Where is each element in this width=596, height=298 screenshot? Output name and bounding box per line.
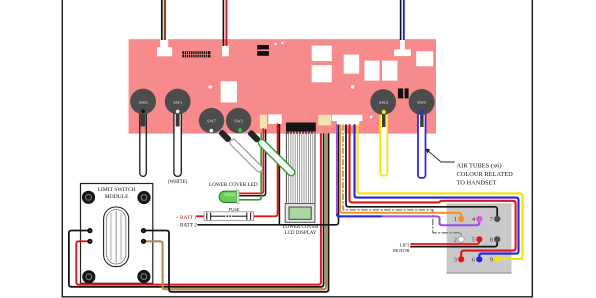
svg-text:AIR TUBES (x6): AIR TUBES (x6) [457,162,502,169]
wire black SK3 drop [278,124,280,225]
wire red LED leg [239,129,264,193]
wire brown module-right loop [144,134,327,289]
pin 4 [476,216,482,222]
limit switch module body [81,184,153,284]
ribbon cable [286,132,315,204]
wire black to J1 [161,0,163,40]
switch SW4 [370,89,396,115]
module screw top-right [137,191,150,204]
module screw bottom-left [82,270,95,283]
wire black lift motor [411,243,497,247]
svg-text:MOTOR: MOTOR [393,248,410,253]
svg-text:SW1: SW1 [173,100,182,105]
connector SK5 (motor white) [332,115,363,126]
svg-text:TO HANDSET: TO HANDSET [457,179,497,186]
pin labels [454,216,494,263]
svg-text:LIMIT SWITCH: LIMIT SWITCH [97,187,135,193]
wire purple to pin4 [337,125,479,225]
pin 2 [458,236,464,242]
air tube yellow (SW4) [380,108,387,176]
switch SW2 [226,108,251,133]
wire black LED leg [239,130,266,196]
wire red to pin3 [350,125,516,257]
wire red lift motor [411,241,479,244]
pin 6 [476,256,482,262]
pin 3 [458,256,464,262]
wire red module-left loop [76,134,321,285]
connector SK3 (white) [268,114,282,124]
fuse F1 [204,212,254,221]
svg-text:SW5: SW5 [417,100,427,105]
svg-text:LOWER COVER: LOWER COVER [283,225,320,230]
svg-text:LIFT: LIFT [400,242,410,247]
svg-text:9: 9 [490,257,493,264]
module screw top-left [82,191,95,204]
switch SW6 [130,89,156,115]
wire blue to J4 [403,0,405,40]
connector SK2 (LED beige) [260,115,267,129]
svg-text:LOWER COVER LED: LOWER COVER LED [209,182,258,188]
switch SW7 [199,108,224,133]
connector J3 [222,45,229,56]
module slot [104,207,129,267]
lift motor terminal box [447,204,512,274]
wire white dashed to pin2 [343,125,446,233]
svg-text:SW4: SW4 [379,100,389,105]
arrow to air tube [425,148,454,162]
jumper bars [257,45,269,49]
wire black module-left loop [69,134,324,287]
svg-text:SW6: SW6 [139,100,149,105]
wire red fuse/batt1 [197,124,278,216]
pin 9 [494,256,500,262]
header J2 (dual row pins) [182,51,210,57]
wire black module-right loop [144,134,329,292]
wire brown to J1 [164,0,166,40]
wire black batt2 [198,125,339,224]
svg-text:COLOUR RELATED: COLOUR RELATED [457,171,514,178]
svg-text:SW2: SW2 [234,118,243,123]
jumper bars 2 [398,88,403,98]
pin 8 [494,236,500,242]
svg-text:FUSE: FUSE [229,207,240,212]
pin 1 [458,216,464,222]
wire red to J3 [225,0,227,46]
svg-text:SW7: SW7 [207,118,217,123]
switch SW5 [409,89,435,115]
air tube white (SW1) [174,107,181,176]
module terminal circles [87,228,146,244]
nipple SW2 [247,129,261,143]
svg-text:(WHITE): (WHITE) [168,180,188,185]
label lift motor [393,242,410,253]
wire blue segment over purple [337,215,381,217]
wire green LED leg [239,133,261,200]
wire orange to pin1 [340,125,461,217]
connector SK4 (batt beige) [318,115,331,126]
svg-text:MODULE: MODULE [105,194,130,200]
svg-text:8: 8 [490,237,493,244]
connector J1 (handset white/brown) [157,39,172,56]
vias [209,42,373,119]
svg-text:1: 1 [454,216,457,223]
air tube black (SW6) [140,107,147,176]
ribbon connector [286,123,316,135]
air tube white diagonal [229,138,264,173]
svg-text:- BATT 2: - BATT 2 [177,222,197,228]
LED D1 [219,190,239,204]
svg-text:LCD DISPLAY: LCD DISPLAY [285,231,317,236]
pads [221,46,434,103]
svg-text:5: 5 [472,237,475,244]
nipple SW7 [218,129,232,143]
PCB board [129,39,436,133]
switch SW1 [165,89,191,115]
label air tubes [457,162,514,186]
svg-text:+ BATT 1: + BATT 1 [176,215,197,221]
air tube blue (SW5) [418,108,426,178]
wire black to J3 [222,0,224,46]
pin 7 [494,216,500,222]
module screw bottom-right [137,270,150,283]
svg-text:2: 2 [454,237,457,244]
wire blue to pin6 [355,125,519,257]
wire black to pin7 [346,125,497,217]
connector J4 (handset blue) [394,39,411,56]
svg-text:3: 3 [454,257,457,264]
air tube green diagonal [257,138,296,177]
wire yellow to pin9 [358,125,523,259]
LCD display [285,204,315,223]
wire black to J4 [400,0,402,40]
pin 5 [476,236,482,242]
